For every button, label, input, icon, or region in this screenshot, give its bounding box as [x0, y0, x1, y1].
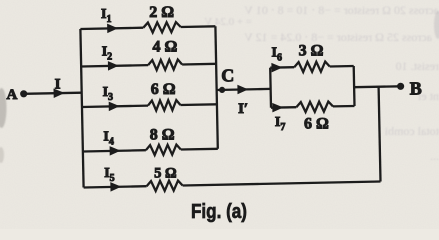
svg-text:A: A: [6, 87, 17, 103]
svg-text:B: B: [410, 78, 422, 98]
svg-text:across 25 Ω resistor = −8 ⋅ 0.: across 25 Ω resistor = −8 ⋅ 0.24 = 12 V: [244, 30, 432, 44]
svg-text:5 Ω: 5 Ω: [154, 166, 177, 182]
svg-text:8 Ω: 8 Ω: [150, 127, 175, 144]
svg-text:4 Ω: 4 Ω: [152, 39, 177, 56]
svg-text:I: I: [55, 77, 61, 93]
svg-text:...: ...: [430, 149, 439, 163]
svg-text:across 20 Ω resistor = −8 ⋅ 10: across 20 Ω resistor = −8 ⋅ 10 = 8 ⋅ 01 …: [244, 3, 439, 17]
svg-text:I′: I′: [238, 101, 248, 117]
svg-text:total combi: total combi: [384, 124, 439, 138]
svg-text:resist. 10: resist. 10: [396, 59, 439, 73]
svg-text:3 Ω: 3 Ω: [299, 43, 324, 60]
svg-text:Fig. (a): Fig. (a): [191, 201, 247, 223]
svg-text:6 Ω: 6 Ω: [151, 81, 176, 98]
svg-text:2 Ω: 2 Ω: [149, 4, 174, 21]
svg-text:C: C: [221, 66, 234, 86]
svg-text:6 Ω: 6 Ω: [304, 115, 329, 132]
